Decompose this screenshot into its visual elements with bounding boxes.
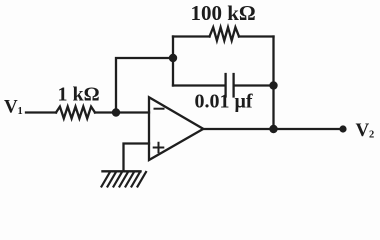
label V1 xyxy=(4,97,23,118)
value label 100 kOhm xyxy=(191,1,256,25)
wire: capacitor rail left segment xyxy=(173,84,225,86)
value label 0.01 uf xyxy=(195,91,253,113)
node: V2 output terminal xyxy=(339,125,346,132)
wire: junction up to feedback branch xyxy=(116,58,173,113)
wire: V1 input lead xyxy=(26,111,56,113)
node: feedback left junction xyxy=(169,54,177,62)
svg-text:1 kΩ: 1 kΩ xyxy=(58,84,100,106)
inverting input marker (minus) xyxy=(155,108,164,110)
node: output / feedback junction xyxy=(269,125,277,133)
wire: top rail right segment xyxy=(239,35,274,37)
ground xyxy=(102,171,147,186)
wire: right feedback rail down to output xyxy=(272,37,274,130)
wire: left feedback rail xyxy=(172,37,174,86)
wire: capacitor rail right segment xyxy=(234,84,274,86)
resistor R2 100 kOhm xyxy=(210,27,240,40)
svg-text:V: V xyxy=(356,120,370,141)
capacitor C1 0.01 uf xyxy=(226,74,234,97)
svg-text:100 kΩ: 100 kΩ xyxy=(191,1,256,25)
op-amp U1 xyxy=(149,97,203,160)
label V2 xyxy=(356,120,375,141)
wire: top rail left segment xyxy=(173,35,210,37)
node: inverting input junction xyxy=(112,108,120,116)
svg-text:0.01 μf: 0.01 μf xyxy=(195,91,253,113)
wire: non-inverting input to ground xyxy=(124,144,150,172)
svg-text:1: 1 xyxy=(18,106,23,117)
svg-text:V: V xyxy=(4,97,18,118)
wire: op-amp output xyxy=(203,128,343,130)
wire: resistor to inverting input of op-amp xyxy=(95,111,149,113)
value label 1 kOhm xyxy=(58,84,100,106)
non-inverting input marker (plus) xyxy=(154,143,164,153)
svg-text:2: 2 xyxy=(369,130,374,141)
resistor R1 1 kOhm xyxy=(56,107,95,119)
node: capacitor / right rail junction xyxy=(269,81,277,89)
